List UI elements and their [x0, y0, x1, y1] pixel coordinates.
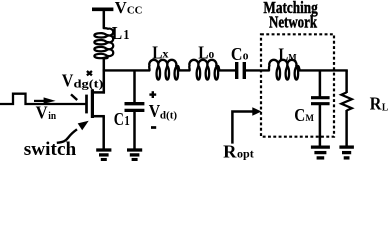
inductor Lo: [189, 60, 219, 80]
ground source: [96, 150, 111, 160]
svg-text:o: o: [243, 48, 249, 62]
svg-text:R: R: [370, 94, 383, 114]
breakdown x mark at gate-drain: [87, 71, 92, 75]
svg-text:V: V: [36, 102, 48, 122]
svg-text:x: x: [162, 47, 168, 61]
svg-text:L: L: [279, 44, 289, 64]
arrow Ropt into matching network: [232, 107, 261, 143]
input arrow: [34, 97, 56, 103]
svg-text:opt: opt: [237, 147, 254, 161]
label Lx: [152, 42, 168, 62]
wire drain node down to transistor drain: [103, 70, 106, 94]
label Lo: [198, 42, 214, 62]
dashed matching network box: [261, 34, 334, 136]
wire LM to output node and RL corner: [300, 69, 348, 71]
capacitor C1 plate 1: [125, 102, 145, 105]
label Vin: [36, 102, 57, 122]
transistor source lead: [92, 115, 105, 118]
inductor L1: [94, 28, 113, 59]
label Co: [231, 44, 249, 64]
svg-text:1: 1: [123, 27, 129, 42]
ground C1: [127, 150, 142, 160]
svg-text:o: o: [209, 47, 215, 61]
capacitor CM plate 2: [311, 102, 330, 105]
label L1: [112, 23, 130, 43]
svg-text:d(t): d(t): [160, 110, 178, 122]
capacitor CM plate 1: [311, 96, 330, 99]
transistor gate bar: [85, 95, 88, 114]
wire C1 to ground: [133, 111, 136, 150]
wire source to ground: [102, 116, 105, 150]
svg-text:dg(t): dg(t): [74, 77, 104, 91]
wire VCC to L1: [103, 9, 106, 28]
wire RL to ground: [345, 110, 348, 147]
transistor drain lead: [92, 91, 105, 94]
wire Co to LM: [246, 69, 270, 71]
svg-text:L: L: [382, 102, 388, 113]
svg-text:C: C: [114, 109, 124, 129]
capacitor CM lead from rail: [319, 70, 322, 96]
label LM: [279, 44, 297, 64]
wire L1 to drain node: [103, 57, 106, 71]
annotation tick toward gate: [71, 94, 77, 100]
label Vdg(t): [62, 71, 104, 91]
label Vd(t): [149, 101, 178, 122]
label Ropt: [223, 141, 254, 161]
svg-text:L: L: [198, 42, 208, 62]
label plus sign of Vd: [149, 91, 156, 98]
label minus sign of Vd: [151, 126, 156, 129]
power VCC bar: [92, 7, 113, 11]
capacitor Co plate 2: [243, 62, 246, 79]
inductor Lx: [149, 60, 179, 80]
svg-text:R: R: [223, 141, 237, 161]
svg-text:L: L: [152, 42, 162, 62]
svg-text:1: 1: [124, 114, 129, 129]
ground CM: [311, 147, 330, 158]
label CM: [294, 105, 314, 125]
svg-text:L: L: [112, 23, 122, 43]
svg-text:V: V: [62, 71, 74, 91]
svg-text:M: M: [288, 52, 296, 63]
label VCC: [115, 0, 143, 17]
input pulse waveform and gate wire: [0, 94, 86, 104]
svg-text:CC: CC: [127, 5, 143, 16]
wire Lx to Lo: [179, 69, 190, 71]
svg-text:Network: Network: [269, 13, 318, 32]
svg-text:M: M: [305, 113, 314, 124]
svg-text:in: in: [48, 110, 56, 122]
label RL: [370, 94, 388, 114]
wire rail: drain node to Lx: [103, 69, 150, 71]
svg-text:V: V: [149, 101, 160, 121]
capacitor C1 lead from rail: [133, 70, 136, 102]
svg-text:switch: switch: [24, 139, 77, 160]
transistor channel bar: [91, 89, 94, 118]
switch arrow squiggle: [57, 121, 89, 143]
inductor LM: [269, 60, 300, 80]
svg-text:C: C: [294, 105, 305, 125]
resistor RL lead from rail: [345, 70, 348, 93]
wire Lo to Co: [219, 69, 235, 71]
svg-text:V: V: [115, 0, 128, 17]
resistor RL zigzag: [341, 92, 352, 110]
wire CM to ground: [319, 105, 322, 147]
label C1: [114, 109, 130, 129]
svg-text:C: C: [231, 44, 243, 64]
capacitor C1 plate 2: [125, 109, 145, 112]
capacitor Co plate 1: [235, 62, 238, 79]
ground RL: [339, 147, 354, 158]
